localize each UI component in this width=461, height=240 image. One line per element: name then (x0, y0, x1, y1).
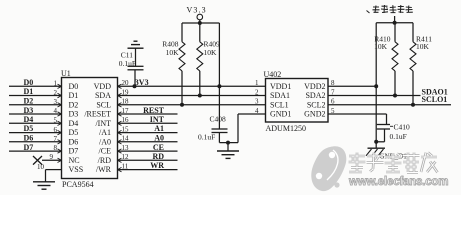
wire SDAO1 net from U402 SDA2 pin 7 (328, 95, 421, 97)
V3.3 power port circle (197, 14, 203, 20)
wire data bus D6 to U1 pin 7 (9, 141, 62, 143)
wire R408 to SCL (181, 71, 183, 105)
svg-text:10K: 10K (166, 48, 180, 57)
svg-text:3: 3 (255, 98, 259, 106)
wire RD net stub from U1 pin 12 (118, 159, 178, 161)
svg-text:7: 7 (54, 135, 58, 143)
svg-text:/CE: /CE (99, 147, 112, 156)
U1 pin 2 arrow (58, 93, 62, 98)
U1 pin 20 arrow (118, 84, 122, 88)
svg-text:V3.3: V3.3 (187, 6, 207, 15)
ground symbol at U1 VSS (33, 181, 55, 183)
svg-text:1: 1 (54, 80, 58, 88)
wire C11 top to ground (135, 48, 137, 66)
svg-text:NC: NC (69, 156, 80, 165)
U1 pin 3 arrow (58, 103, 62, 107)
svg-text:D4: D4 (24, 115, 34, 124)
svg-text:3V3: 3V3 (135, 78, 149, 87)
wire data bus D2 to U1 pin 3 (9, 104, 62, 106)
svg-text:D3: D3 (24, 106, 34, 115)
wire isolated pull-up rail (376, 22, 413, 24)
wire U1 VSS pin 10 to ground (46, 169, 62, 171)
svg-text:D6: D6 (24, 134, 34, 143)
svg-text:4: 4 (255, 107, 259, 115)
svg-text:4: 4 (54, 107, 58, 115)
svg-text:PCA9564: PCA9564 (62, 180, 94, 189)
wire data bus D0 to U1 pin 1 (9, 85, 62, 87)
U1 pin 6 arrow (58, 130, 62, 134)
wire C408 bottom (218, 133, 220, 143)
svg-text:WR: WR (150, 161, 164, 170)
svg-text:8: 8 (54, 144, 58, 152)
junction V3.3 trunk on 3V3 wire (217, 84, 221, 88)
wire SCLO1 net from U402 SCL2 pin 6 (328, 104, 451, 106)
wire U402 VDD2 pin 8 to pull-up rail trunk (328, 85, 376, 87)
svg-text:14: 14 (122, 135, 130, 143)
U1 pin 9 NC no-connect X mark (33, 156, 42, 165)
svg-text:D5: D5 (24, 124, 34, 133)
svg-text:D2: D2 (69, 100, 79, 109)
svg-text:2: 2 (54, 89, 58, 97)
op-amp U402 ADUM1250 chip body (266, 79, 329, 123)
junction isolated ground (374, 140, 378, 144)
svg-text:INT: INT (150, 115, 165, 124)
junction R409-SDA (198, 94, 202, 98)
wire 3V3 net from U1 VDD pin 20 to U402 VDD1 (118, 85, 266, 87)
svg-text:D0: D0 (24, 78, 34, 87)
capacitor C11 (128, 65, 144, 67)
U1 pin 7 arrow (58, 140, 62, 144)
wire U402 GND1 pin 4 (238, 113, 266, 115)
node annotation Chinese text (connect to system) (367, 5, 413, 13)
wire ground stem (227, 143, 229, 151)
wire isolated ground stem (375, 142, 377, 148)
svg-text:D5: D5 (69, 128, 79, 137)
capacitor C408 (212, 128, 228, 130)
svg-text:D7: D7 (69, 147, 79, 156)
wire SDA net from U1 pin 19 to U402 SDA1 (118, 95, 266, 97)
svg-text:CE: CE (153, 143, 164, 152)
svg-text:VDD2: VDD2 (304, 82, 325, 91)
resistor R410 (394, 23, 396, 42)
svg-text:1: 1 (255, 79, 259, 87)
svg-text:SDA2: SDA2 (305, 91, 325, 100)
svg-text:SCL2: SCL2 (307, 100, 326, 109)
svg-text:C410: C410 (394, 123, 411, 132)
svg-text:0.1uF: 0.1uF (390, 132, 407, 141)
wire data bus D3 to U1 pin 4 (9, 113, 62, 115)
svg-text:20: 20 (122, 79, 130, 87)
U1 pin 14 arrow (118, 140, 122, 144)
svg-text:SCLO1: SCLO1 (422, 95, 448, 104)
wire GND1 pin down to C408 (237, 114, 239, 143)
svg-text:U402: U402 (264, 70, 282, 79)
svg-text:VSS: VSS (69, 165, 84, 174)
resistor R411 (412, 23, 414, 42)
svg-text:0.1uF: 0.1uF (198, 133, 215, 142)
U1 pin 17 arrow (118, 112, 122, 116)
svg-text:0.1uF: 0.1uF (119, 59, 136, 68)
wire A0 net stub from U1 pin 14 (118, 141, 178, 143)
U1 pin 4 arrow (58, 112, 62, 116)
svg-text:9: 9 (50, 153, 54, 161)
U1 pin 19 arrow (118, 93, 122, 98)
junction VDD2-trunk (374, 84, 378, 88)
wire U402 GND2 pin 5 to C410 (328, 113, 387, 115)
wire WR net stub from U1 pin 11 (118, 169, 178, 171)
svg-text:D3: D3 (69, 110, 79, 119)
U1 pin 16 arrow (118, 121, 122, 125)
junction ground node (226, 141, 230, 145)
junction R411-SCLO1 (411, 103, 415, 107)
svg-text:13: 13 (122, 144, 130, 152)
svg-text:SCL: SCL (96, 100, 111, 109)
svg-text:D1: D1 (24, 87, 34, 96)
junction rail center (393, 21, 397, 25)
wire R409 to SDA (199, 71, 201, 96)
svg-text:D1: D1 (69, 91, 79, 100)
svg-text:6: 6 (54, 126, 58, 134)
svg-text:VDD1: VDD1 (270, 82, 291, 91)
wire V3.3 rail to R409 (199, 23, 201, 42)
U1 pin 18 arrow (118, 103, 122, 107)
wire data bus D1 to U1 pin 2 (9, 95, 62, 97)
ground symbol at C408 (217, 150, 239, 152)
wire data bus D4 to U1 pin 5 (9, 122, 62, 124)
svg-text:10K: 10K (204, 48, 218, 57)
svg-text:15: 15 (122, 126, 130, 134)
svg-text:3: 3 (54, 98, 58, 106)
svg-text:D4: D4 (69, 119, 79, 128)
wire rail to R410 (375, 23, 377, 87)
svg-text:GND1: GND1 (270, 110, 291, 119)
wire A1 net stub from U1 pin 15 (118, 132, 178, 134)
wire V3.3 rail down to 3V3 wire and C408 (218, 23, 220, 129)
svg-text:SCL1: SCL1 (270, 100, 289, 109)
svg-text:RD: RD (152, 152, 164, 161)
svg-text:19: 19 (122, 89, 130, 97)
junction R408-SCL (180, 103, 184, 107)
wire CE net stub from U1 pin 13 (118, 150, 178, 152)
wire INT net stub from U1 pin 16 (118, 122, 178, 124)
svg-text:2: 2 (255, 88, 259, 96)
svg-text:18: 18 (122, 98, 130, 106)
wire VDD2 trunk down to C410 bottom (375, 86, 377, 142)
svg-text:D6: D6 (69, 137, 79, 146)
svg-text:11: 11 (122, 163, 129, 171)
resistor R409 (197, 42, 203, 71)
U1 pin 5 arrow (58, 121, 62, 125)
svg-text:/A0: /A0 (99, 137, 111, 146)
svg-text:A0: A0 (154, 134, 164, 143)
svg-text:12: 12 (122, 153, 130, 161)
U1 pin 12 arrow (118, 158, 122, 162)
svg-text:D7: D7 (24, 143, 34, 152)
decorative watermark (not labelled further) (311, 146, 346, 191)
resistor R408 (179, 42, 185, 71)
wire rail stem up to annotation (394, 16, 396, 23)
svg-text:SDA: SDA (95, 91, 111, 100)
wire REST net stub from U1 pin 17 (118, 113, 178, 115)
svg-text:ADUM1250: ADUM1250 (266, 124, 306, 133)
svg-text:17: 17 (122, 107, 130, 115)
svg-text:5: 5 (54, 117, 58, 125)
svg-text:/RD: /RD (98, 156, 112, 165)
svg-text:U1: U1 (61, 69, 71, 78)
junction dot 3V3 at C11 tap (133, 84, 137, 88)
U1 pin 8 arrow (58, 149, 62, 153)
U1 pin 11 arrow (118, 167, 122, 171)
capacitor C410 (377, 124, 390, 126)
ground symbol inverted above C11 (128, 47, 144, 49)
svg-text:D0: D0 (69, 82, 79, 91)
C410 label tick (390, 125, 393, 127)
svg-text:D2: D2 (24, 97, 34, 106)
svg-text:www.elecfans.com: www.elecfans.com (348, 176, 448, 188)
U1 pin 13 arrow (118, 149, 122, 153)
wire V3.3 rail to R408 (181, 23, 183, 42)
wire V3.3 circle to rail (199, 20, 201, 23)
svg-text:10K: 10K (374, 42, 388, 51)
op-amp U1 PCA9564 chip body (62, 78, 118, 179)
svg-text:/WR: /WR (96, 165, 112, 174)
svg-text:/A1: /A1 (99, 128, 111, 137)
wire data bus D7 to U1 pin 8 (9, 150, 62, 152)
svg-text:VDD: VDD (94, 82, 112, 91)
wire SCL net from U1 pin 18 to U402 SCL1 (118, 104, 266, 106)
svg-text:10K: 10K (416, 42, 430, 51)
wire C11 bottom to 3V3 net (134, 70, 136, 87)
junction R410-SDAO1 (393, 94, 397, 98)
svg-text:/RESET: /RESET (84, 110, 111, 119)
svg-text:A1: A1 (154, 124, 164, 133)
svg-text:/INT: /INT (95, 119, 111, 128)
U1 pin 1 arrow (58, 84, 62, 88)
svg-text:10: 10 (37, 163, 45, 171)
svg-text:REST: REST (143, 106, 165, 115)
svg-text:C408: C408 (210, 115, 227, 124)
wire C410 bottom stem (384, 129, 386, 142)
wire data bus D5 to U1 pin 6 (9, 132, 62, 134)
U1 pin 15 arrow (118, 130, 122, 134)
ground isolated symbol (368, 147, 386, 149)
wire V3.3 rail (182, 22, 219, 24)
svg-text:16: 16 (122, 116, 130, 124)
junction V3.3 rail (198, 21, 202, 25)
svg-text:SDA1: SDA1 (270, 91, 290, 100)
svg-text:GND2: GND2 (304, 110, 325, 119)
